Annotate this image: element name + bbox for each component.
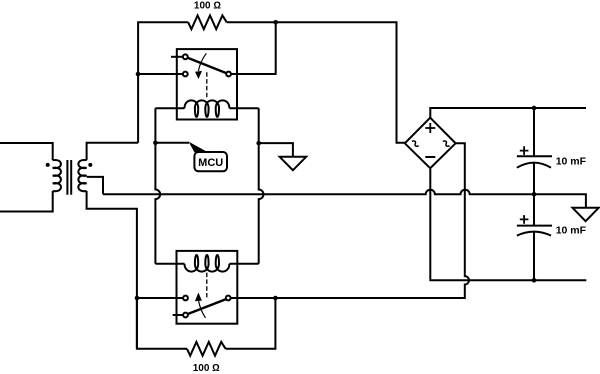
bridge rectifier B1 — [405, 118, 456, 169]
wire secondary top lead — [87, 143, 139, 160]
capacitor C2 bottom lead — [533, 232, 535, 280]
relay K1 NC stub — [171, 56, 183, 58]
svg-text:10 mF: 10 mF — [556, 224, 587, 236]
relay K1 arrow — [198, 53, 206, 71]
wire primary bottom lead — [0, 191, 53, 212]
bridge tilde left — [412, 140, 419, 148]
relay K1 contact circles — [183, 54, 188, 59]
wire bridge right AC lead — [275, 143, 469, 298]
relay K2 blade — [188, 299, 226, 314]
wire K1 coil left lead — [155, 107, 184, 109]
relay K1 coil — [185, 100, 230, 117]
wire bridge + lead — [430, 108, 586, 118]
wire K2 coil right lead — [229, 263, 258, 265]
relay K1 dashed link — [206, 72, 208, 97]
MCU box — [194, 152, 227, 171]
MCU callout wedge — [189, 142, 208, 153]
relay K2 contact circles — [183, 296, 188, 301]
junction dot K2 NO — [273, 296, 278, 301]
junction dot -rail cap — [532, 278, 537, 283]
wire relay K1 common — [138, 73, 183, 75]
resistor R1 100 ohm — [188, 15, 227, 29]
relay K2 coil — [185, 255, 230, 272]
relay K2 NC stub — [173, 314, 183, 316]
svg-text:100 Ω: 100 Ω — [193, 363, 220, 374]
capacitor C1 plates — [517, 155, 552, 157]
wire MCU control rail — [155, 108, 160, 264]
wire secondary center tap — [87, 177, 103, 194]
bridge tilde right — [443, 140, 450, 148]
wire secondary bottom lead — [87, 191, 137, 349]
junction dot +rail cap — [532, 106, 537, 111]
wire relay K2 NO to right — [231, 297, 276, 299]
relay K2 arrow — [199, 301, 206, 318]
wire resistor R1 left leg — [138, 22, 188, 143]
transformer T1 primary winding — [53, 160, 61, 191]
relay K1 box — [177, 49, 237, 119]
capacitor C2 plates — [517, 225, 552, 227]
capacitor C2 plus — [520, 215, 529, 224]
bridge plus — [425, 123, 435, 133]
svg-text:100 Ω: 100 Ω — [194, 1, 221, 12]
transformer core — [67, 160, 71, 195]
svg-text:10 mF: 10 mF — [556, 156, 587, 168]
capacitor C1 bottom lead — [533, 163, 535, 226]
junction dot mid cap — [532, 192, 537, 197]
wire MCU pointer line — [155, 142, 189, 144]
wire relay K2 common — [137, 297, 183, 299]
wire primary top lead — [0, 143, 53, 160]
capacitor C1 plus — [520, 146, 529, 155]
transformer T1 secondary winding — [78, 160, 86, 191]
wire ground stub G1 — [259, 143, 293, 157]
transformer phase dot secondary — [88, 163, 92, 167]
ground G1 — [280, 157, 307, 170]
relay K2 box — [177, 251, 238, 324]
junction dot MCU node — [153, 141, 158, 146]
wire K1 coil right lead — [229, 107, 258, 109]
transformer phase dot primary — [46, 163, 50, 167]
resistor R2 left leg — [137, 298, 187, 349]
junction dot R1 right — [273, 20, 278, 25]
ground G2 — [573, 208, 599, 221]
wire K2 coil left lead — [155, 263, 184, 265]
wire R2 right leg — [226, 298, 276, 349]
junction dot K2 common — [135, 296, 140, 301]
wire bridge - lead — [430, 168, 586, 280]
junction dot K1 common — [136, 72, 141, 77]
relay K2 dashed link — [206, 273, 208, 298]
bridge minus — [425, 156, 435, 158]
wire center tap rail with hops — [103, 190, 586, 208]
wire coil ground rail — [259, 108, 264, 264]
relay K1 blade — [188, 58, 227, 73]
resistor R2 100 ohm — [187, 342, 226, 356]
capacitor C1 top lead — [533, 108, 535, 156]
wire R1 to bridge — [227, 22, 405, 143]
junction dot coil ground node — [256, 141, 261, 146]
svg-text:MCU: MCU — [198, 157, 223, 169]
wire R1 right leg to relay K1 — [231, 22, 276, 74]
